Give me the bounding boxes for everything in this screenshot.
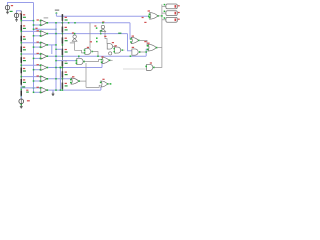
label R7	[23, 79, 25, 80]
bus stub to comparator U7	[34, 91, 41, 93]
pin in1 U13	[147, 45, 149, 47]
bubble of gate U22	[109, 52, 112, 55]
wire V2 to ladder top	[17, 11, 22, 13]
net label near ladder bottom	[22, 86, 25, 87]
output wire of U1	[48, 22, 130, 24]
value label 12 V of V1	[10, 11, 13, 12]
ladder vertical wire	[20, 11, 22, 86]
net label on x90 wire	[90, 41, 92, 42]
voltage source V3	[19, 99, 24, 104]
label U10	[114, 45, 116, 46]
resistor R6	[20, 68, 22, 74]
output wire of U7	[48, 89, 101, 91]
resistor R2	[20, 25, 22, 31]
net name label 2	[100, 30, 103, 31]
wire U21 output to gate U10	[113, 46, 115, 52]
wire U11 output to XOR	[139, 40, 148, 46]
wire U18 output to gate U20	[79, 80, 86, 82]
junction x60 U7 line	[60, 89, 62, 91]
label U3	[37, 42, 39, 43]
label U20	[102, 79, 104, 80]
comparator U6 input- pin	[40, 80, 42, 82]
signal bus vertical wire	[33, 3, 35, 93]
junction bus stub U2	[33, 35, 35, 37]
VCC stub	[55, 13, 57, 16]
label U18	[72, 76, 74, 77]
output wire of U5	[48, 67, 102, 69]
ground below V1	[7, 10, 9, 12]
wire U8 output to U4 line	[93, 52, 99, 57]
junction ladder T3	[21, 42, 23, 44]
resistor R3	[20, 36, 22, 42]
pin in1 U10	[113, 48, 115, 50]
resistor R8	[20, 90, 22, 96]
tap wire node T4	[21, 53, 40, 55]
VCC rail end pin	[148, 15, 150, 17]
junction bus stub U3	[33, 46, 35, 48]
junction x60 U5 line	[60, 67, 62, 69]
wire U15 input from U2 line	[100, 31, 102, 33]
comparator U5 input- pin	[40, 69, 42, 71]
gate U19	[147, 64, 153, 70]
net label on VCC rail end	[142, 17, 144, 18]
junction bus stub U7	[33, 92, 35, 94]
comparator U5 output pin	[47, 67, 49, 69]
comparator U6	[41, 76, 47, 82]
bus stub to comparator U2	[34, 35, 41, 37]
junction bottom R12	[62, 55, 64, 57]
vertical wire node A at x56	[55, 23, 57, 90]
junction U4 line stub	[78, 55, 80, 57]
resistor R9	[61, 14, 63, 21]
pin in2 U17	[101, 61, 103, 63]
pin in U20	[100, 82, 102, 84]
net label on U11 wire	[144, 41, 146, 42]
label R4	[23, 47, 25, 48]
comparator U5 input+ pin	[40, 65, 42, 67]
value label of R4	[23, 49, 26, 50]
label R8	[26, 90, 28, 91]
ground on U7 output line	[52, 92, 54, 94]
comparator U1 input+ pin	[40, 20, 42, 22]
label R11	[65, 38, 67, 39]
lead of R14	[61, 68, 63, 79]
lead of R13	[61, 56, 63, 67]
value label of R2	[23, 28, 26, 29]
comparator U2 input+ pin	[40, 31, 42, 33]
label R13	[65, 60, 67, 61]
junction U4 line at x130	[130, 55, 132, 57]
label U4	[37, 53, 39, 54]
junction on U1 line b	[74, 22, 76, 24]
probe X2	[162, 12, 166, 14]
junction bus stub U5	[33, 69, 35, 71]
end of U20 stub	[110, 83, 112, 85]
label X2	[178, 12, 180, 13]
junction bottom R14	[62, 78, 64, 80]
junction bus bottom	[33, 87, 35, 89]
resistor R13	[61, 60, 63, 66]
label X1	[178, 5, 180, 6]
probe X1	[162, 5, 166, 7]
label U8	[87, 47, 89, 48]
gate U10	[115, 47, 121, 53]
junction x56	[55, 89, 57, 91]
label U7	[37, 87, 39, 88]
OR gate U9	[150, 13, 158, 20]
inverter U16 on U2 line	[73, 35, 76, 38]
label U6	[37, 75, 39, 76]
junction bus stub U4	[33, 58, 35, 60]
junction on U1 line a	[68, 22, 70, 24]
wire U9 output to probe bus	[158, 15, 162, 17]
gate U20	[101, 81, 108, 87]
comparator U2	[41, 31, 47, 37]
output wire of U6	[48, 78, 71, 80]
junction bus stub U1	[33, 24, 35, 26]
ground below V3	[20, 105, 22, 107]
pin top R8	[21, 89, 22, 90]
comparator U4 input+ pin	[40, 53, 42, 55]
resistor R5	[20, 57, 22, 63]
label R1	[23, 14, 25, 15]
wire U16 output to gate U8 input	[75, 42, 85, 53]
comparator U7 output pin	[47, 89, 49, 91]
VCC label text	[55, 9, 59, 11]
label R16	[65, 83, 67, 84]
lead of R16	[61, 79, 63, 90]
comparator U6 input+ pin	[40, 76, 42, 78]
node dot a2	[96, 41, 98, 43]
wire U12 output	[140, 51, 146, 53]
wire U17 output	[110, 59, 113, 61]
resistor R10	[61, 27, 63, 33]
comparator U1 output pin	[47, 22, 49, 24]
resistor R1	[20, 14, 22, 20]
node dot U21 out	[115, 52, 117, 54]
wire V1 to signal bus	[8, 3, 34, 5]
vertical wire node B at x60.4	[59, 68, 61, 91]
pin out U9	[157, 15, 159, 17]
wire into gate U20 input	[86, 85, 101, 87]
comparator U3 output pin	[47, 44, 49, 46]
value label of R5	[23, 60, 26, 61]
pin out U12	[139, 51, 141, 53]
wire U14 output to gate U17	[84, 60, 101, 62]
pin in1 U8	[84, 49, 86, 51]
bus stub to comparator U6	[34, 80, 41, 82]
value label of R14	[65, 74, 68, 75]
label U1	[37, 19, 39, 20]
gate U18	[71, 78, 79, 84]
pin of probe X1	[164, 4, 166, 6]
ground stub below U7 line	[52, 90, 54, 93]
bus stub to comparator U1	[34, 24, 41, 26]
vertical wire node C at x51.8	[51, 45, 53, 54]
pin in2 U10	[113, 51, 115, 53]
net name label	[118, 33, 121, 34]
comparator U2 output pin	[47, 33, 49, 35]
pin in2 U8	[84, 52, 86, 54]
VCC pin dot	[56, 12, 58, 14]
comparator U1	[41, 20, 47, 26]
junction U2 line at U16	[74, 33, 76, 35]
junction bottom R13	[62, 67, 64, 69]
junction ladder T7	[21, 87, 23, 89]
value label of R7	[23, 82, 26, 83]
voltage source V1	[5, 5, 9, 9]
pin in1 U14	[76, 60, 78, 62]
value label of R16	[65, 85, 68, 86]
tap wire node T6	[21, 76, 40, 78]
wire U2 line corner down to gate U12	[128, 34, 132, 51]
probe X3	[162, 19, 166, 21]
label U17	[101, 56, 103, 57]
resistor R12	[61, 49, 63, 55]
lead of R12	[61, 45, 63, 56]
label R6	[23, 68, 25, 69]
label U21	[112, 42, 114, 43]
ground below V2	[16, 18, 18, 20]
stub node x56 to mid ladder	[56, 48, 62, 50]
lead of R11	[61, 34, 63, 45]
gray wire to gate U19	[123, 68, 147, 70]
comparator U5	[41, 65, 47, 71]
wire U19 output up to probe bus	[154, 48, 162, 68]
voltage source V2	[14, 13, 18, 17]
VCC rail wire	[56, 15, 149, 17]
pin out U20	[107, 83, 109, 85]
junction N1 x56	[55, 28, 57, 30]
comparator U4 output pin	[47, 55, 49, 57]
output wire of U4	[48, 55, 146, 57]
junction U12 out at riser	[145, 51, 147, 53]
gate U21	[107, 44, 112, 49]
part number text over U1	[44, 17, 49, 18]
comparator U3 input- pin	[40, 46, 42, 48]
wire U7 line corner up to gate	[100, 87, 102, 90]
comparator U4 input- pin	[40, 58, 42, 60]
pin of probe X3	[164, 17, 166, 19]
pin out U10	[121, 49, 123, 51]
net label under U2 line	[104, 36, 106, 37]
pin out U13	[156, 47, 158, 49]
wire U1 line corner down to gate U11	[129, 23, 132, 39]
lead of R9	[61, 16, 63, 23]
junction ladder T2	[21, 31, 23, 33]
resistor R7	[20, 79, 22, 85]
AND gate U14	[77, 58, 83, 64]
label left of U15	[94, 25, 96, 26]
pin in2 U9	[149, 17, 151, 19]
junction x56	[55, 55, 57, 57]
value label of R13	[65, 63, 68, 64]
label R14	[65, 72, 67, 73]
output wire of U3	[48, 44, 56, 46]
label V2	[20, 13, 22, 14]
pin in2 U14	[76, 62, 78, 64]
wire U5 line corner up to gate	[101, 63, 103, 68]
label R12	[65, 49, 67, 50]
pin in2 U13	[147, 49, 149, 51]
bus stub to comparator U3	[34, 46, 41, 48]
label X3	[178, 19, 180, 20]
part number gray text	[70, 42, 74, 43]
vertical gray wire node x86	[85, 63, 87, 87]
value label of R6	[23, 70, 26, 71]
pin in1 U9	[149, 14, 151, 16]
comparator U3	[41, 42, 47, 48]
label U11	[132, 36, 134, 37]
wire x56 to gate U14 input	[56, 60, 77, 62]
junction U5 line x60.4	[60, 67, 62, 69]
label U13	[147, 43, 149, 44]
junction U1 line at U15	[102, 22, 104, 24]
comparator U4	[41, 53, 47, 59]
pin bottom R8	[21, 96, 22, 97]
junction bottom R16	[62, 89, 64, 91]
wire U10 output	[122, 49, 125, 51]
pin in1 U17	[101, 59, 103, 61]
gate U12	[132, 49, 138, 55]
wire from U1 line down to gate U8 input	[89, 23, 91, 49]
XOR gate U13	[148, 44, 156, 51]
pin out U18	[78, 80, 80, 82]
junction tap T1	[21, 20, 23, 22]
label R2	[23, 25, 25, 26]
wire U20 output stub	[108, 83, 111, 85]
comparator U7	[41, 87, 47, 93]
pin in1 U18	[70, 79, 72, 81]
label V1	[11, 5, 13, 6]
comparator U2 input- pin	[40, 35, 42, 37]
label R9	[65, 17, 67, 18]
probe bus vertical wire	[161, 4, 163, 47]
value label of R11	[65, 40, 68, 41]
tap wire node T7	[21, 87, 40, 89]
pin below V3	[21, 104, 23, 106]
junction stub x56 y49	[55, 49, 56, 50]
wire U4 line corner up to XOR	[146, 49, 147, 56]
junction x56	[55, 44, 57, 46]
resistor R11	[61, 37, 63, 43]
junction x56	[55, 78, 57, 80]
label U2	[37, 30, 39, 31]
output wire of U2	[48, 33, 127, 35]
junction x56	[55, 67, 57, 69]
pin in2 U18	[70, 82, 72, 84]
tap wire node T3	[21, 42, 40, 44]
junction bottom R9	[62, 22, 64, 24]
stub U4 line to U14	[78, 56, 80, 58]
wire ladder bottom to R8	[20, 86, 22, 91]
gate U17	[102, 57, 109, 63]
resistor R16	[61, 83, 63, 89]
pin left U15	[96, 27, 98, 29]
resistor R14	[61, 71, 63, 77]
junction bottom R10	[62, 33, 64, 35]
value label of R1	[23, 17, 26, 18]
pin out U14	[83, 61, 85, 63]
bus stub to comparator U5	[34, 69, 41, 71]
wire node N1 from bus to x56	[34, 28, 57, 30]
junction probe bus at U9 out	[161, 15, 163, 17]
label U15	[102, 21, 104, 22]
wire U13 output to probe bus	[157, 47, 162, 49]
comparator U7 input+ pin	[40, 87, 42, 89]
junction bus stub U6	[33, 80, 35, 82]
tap wire node T1	[21, 20, 33, 22]
label R10	[65, 27, 67, 28]
label R3	[23, 36, 25, 37]
label U9	[148, 10, 150, 11]
pin in2 U11	[130, 41, 132, 43]
label U12	[132, 47, 134, 48]
comparator U6 output pin	[47, 78, 49, 80]
value label of R8	[26, 92, 29, 93]
net label right of U11	[144, 22, 146, 23]
value label of R12	[65, 51, 68, 52]
pin out U19	[153, 67, 155, 69]
pin out U11	[138, 40, 140, 42]
lead of R10	[61, 23, 63, 34]
bus stub to comparator U4	[34, 57, 41, 59]
wire U15 output to gate U21	[105, 31, 107, 43]
junction U2 line at U15 stub	[100, 33, 102, 35]
junction U8 out on U4 line	[97, 55, 99, 57]
resistor R4	[20, 46, 22, 52]
value label of R9	[65, 19, 68, 20]
comparator U3 input+ pin	[40, 42, 42, 44]
junction ladder T6	[21, 76, 23, 78]
label U16	[72, 32, 74, 33]
net label N1	[35, 28, 37, 29]
label V3	[27, 100, 30, 101]
value label of R3	[23, 39, 26, 40]
junction x56	[55, 22, 57, 24]
pin out U8	[92, 51, 94, 53]
tap wire node T2	[21, 30, 40, 32]
comparator U1 input- pin	[40, 24, 42, 26]
comparator U7 input- pin	[40, 92, 42, 94]
label U5	[37, 64, 39, 65]
junction bottom R11	[62, 44, 64, 46]
junction ladder T5	[21, 65, 23, 67]
gate U11	[131, 37, 138, 43]
pin of probe X2	[164, 11, 166, 13]
label U19	[150, 62, 152, 63]
tap wire node T5	[21, 64, 40, 66]
junction ladder T4	[21, 53, 23, 55]
inverter U15 on U1 line	[101, 25, 104, 28]
junction x56	[55, 33, 57, 35]
junction bus T1	[33, 20, 35, 22]
label R5	[23, 58, 25, 59]
pin out U17	[109, 60, 111, 62]
pin in1 U11	[130, 38, 132, 40]
junction bus N1	[33, 28, 35, 30]
AND gate U8	[85, 49, 91, 55]
value label of R10	[65, 29, 68, 30]
junction x56 at U14 wire	[55, 60, 57, 62]
wire R8 to V3	[20, 96, 22, 99]
node dot a1	[96, 37, 98, 39]
pin in1 U19	[145, 66, 147, 68]
